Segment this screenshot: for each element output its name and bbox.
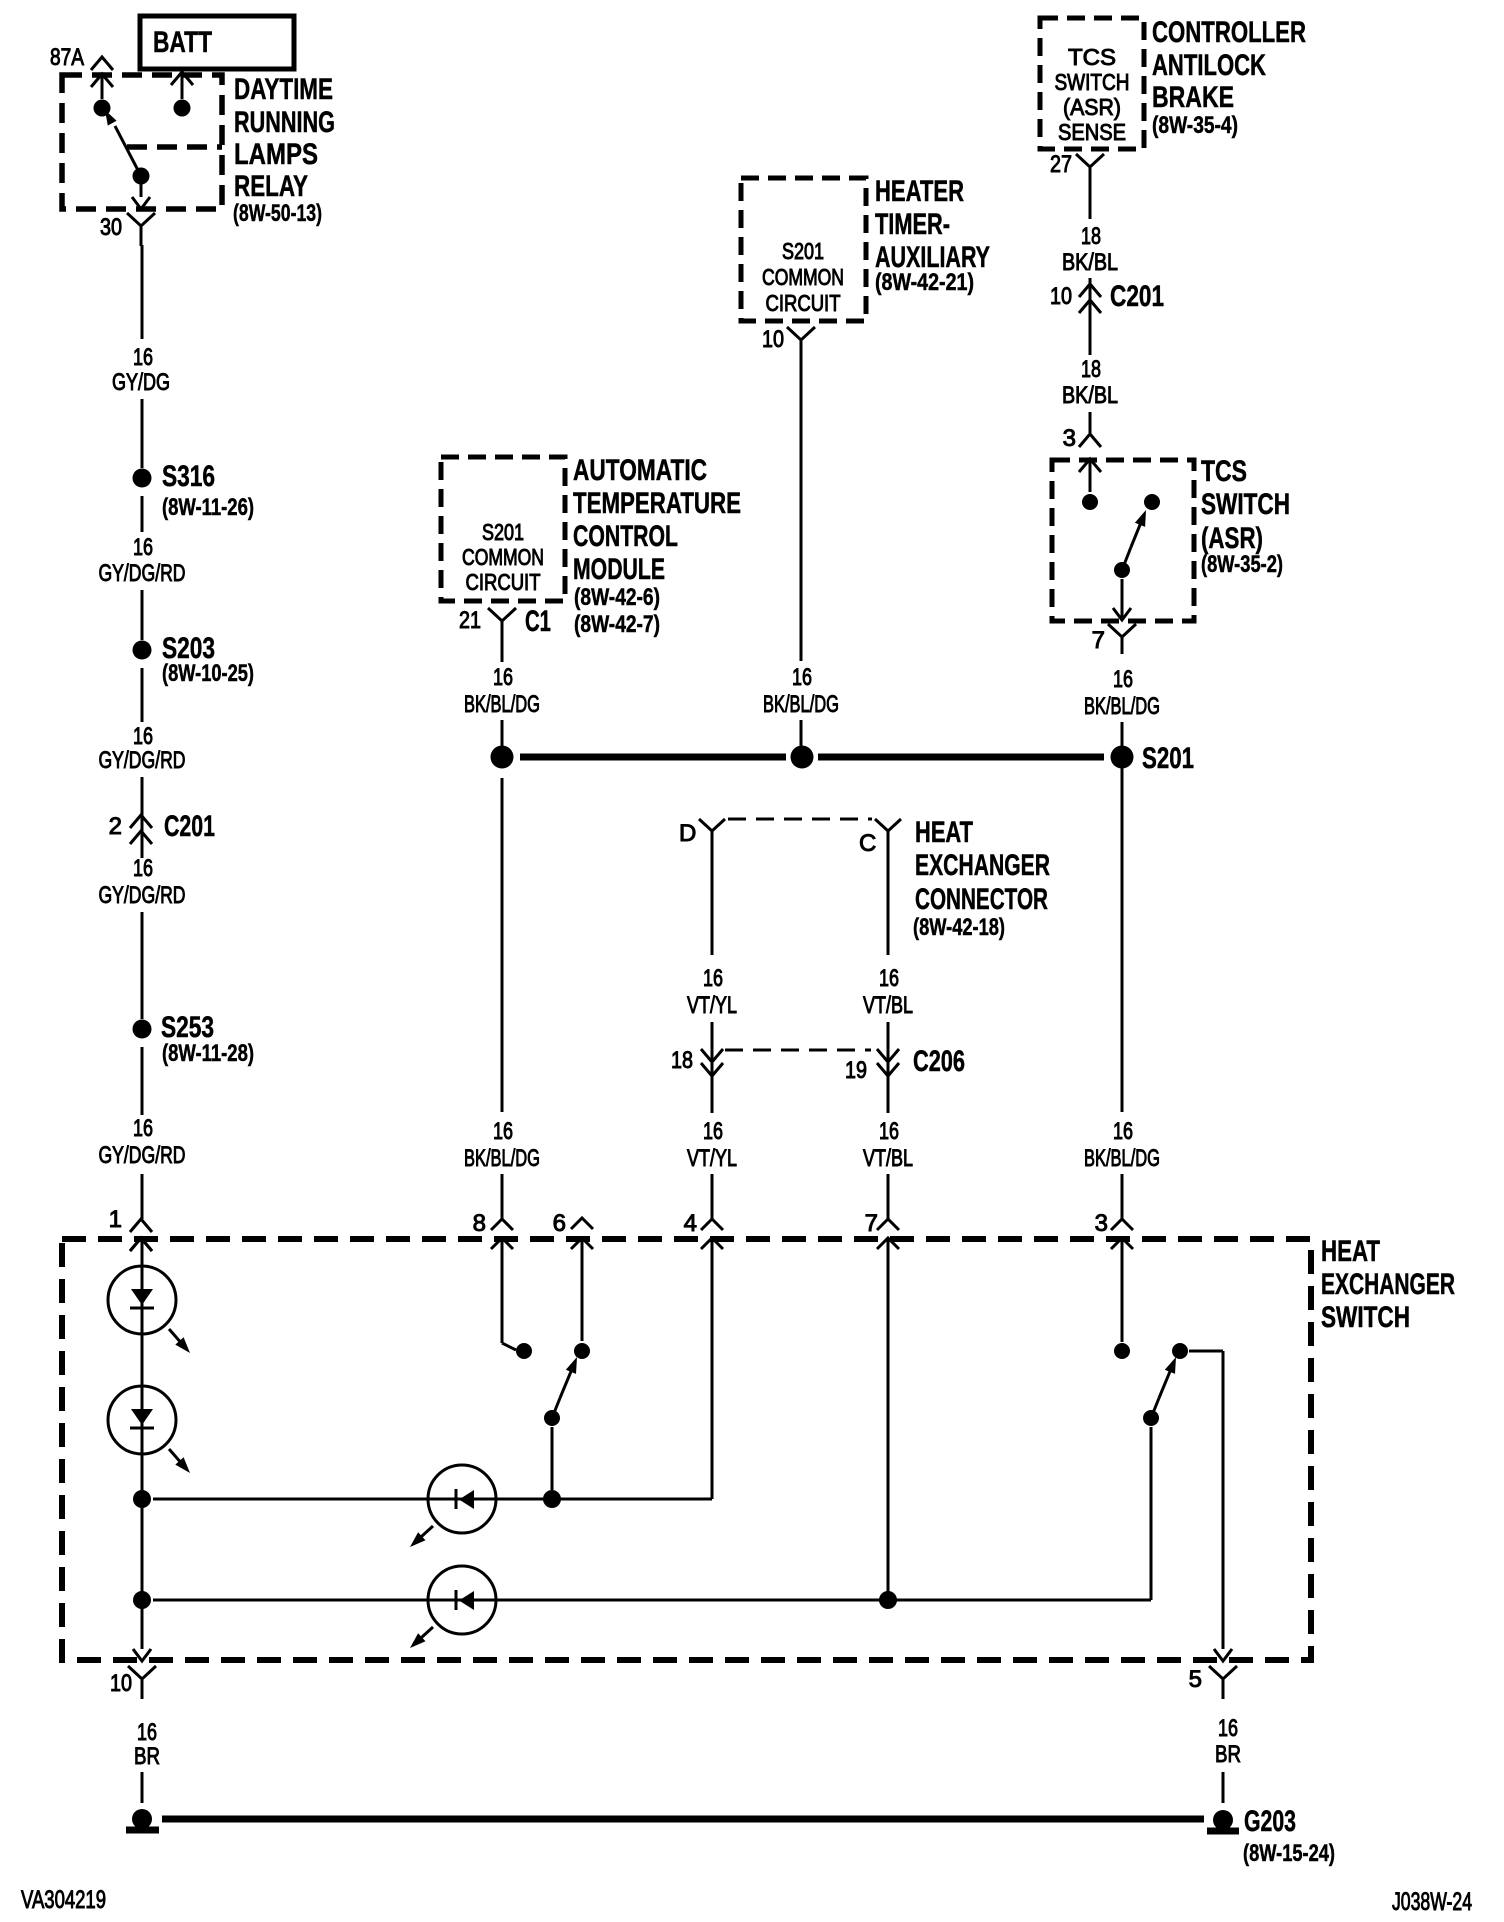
ground bus — [162, 1816, 1204, 1823]
svg-text:TEMPERATURE: TEMPERATURE — [573, 487, 741, 520]
wire 18 down — [711, 1080, 714, 1219]
svg-text:BR: BR — [134, 1743, 160, 1770]
svg-text:(8W-50-13): (8W-50-13) — [233, 200, 322, 227]
svg-text:7: 7 — [865, 1210, 878, 1237]
svg-text:SWITCH: SWITCH — [1201, 488, 1290, 521]
svg-text:16: 16 — [703, 965, 723, 992]
pin 8 chevrons — [473, 1210, 513, 1249]
pin 4 chevrons — [684, 1210, 723, 1249]
svg-text:VA304219: VA304219 — [21, 1886, 106, 1914]
svg-text:LAMPS: LAMPS — [234, 138, 318, 171]
svg-text:CONNECTOR: CONNECTOR — [915, 883, 1048, 916]
relay DAYTIME RUNNING LAMPS RELAY dashed box — [62, 75, 222, 209]
connector C206 pin 18 chevrons — [671, 1047, 723, 1076]
svg-text:CONTROLLER: CONTROLLER — [1152, 16, 1306, 49]
svg-text:BK/BL/DG: BK/BL/DG — [464, 1145, 540, 1172]
svg-text:ANTILOCK: ANTILOCK — [1152, 49, 1266, 82]
svg-text:8: 8 — [473, 1210, 486, 1237]
switch HEAT EXCHANGER SWITCH dashed box — [62, 1239, 1311, 1660]
svg-text:GY/DG/RD: GY/DG/RD — [99, 560, 186, 587]
svg-text:16: 16 — [493, 664, 513, 691]
svg-text:1: 1 — [109, 1206, 122, 1233]
sheet label VA304219 — [21, 1886, 106, 1914]
label 16 VT/BL a — [863, 965, 913, 1019]
pin 1 entry chevron — [130, 1238, 152, 1251]
wire to S253 — [141, 912, 144, 1019]
svg-text:C201: C201 — [1110, 280, 1164, 313]
svg-text:TCS: TCS — [1201, 455, 1247, 488]
pin 27 connector — [1050, 151, 1104, 181]
svg-text:TIMER-: TIMER- — [875, 208, 950, 241]
svg-text:S201: S201 — [782, 238, 824, 264]
svg-text:16: 16 — [879, 965, 899, 992]
svg-text:16: 16 — [792, 664, 812, 691]
svg-text:(8W-42-18): (8W-42-18) — [913, 914, 1005, 941]
wire below S253 — [141, 1047, 144, 1115]
svg-text:10: 10 — [110, 1670, 132, 1697]
module HEATER TIMER dashed box S201 COMMON CIRCUIT — [741, 178, 866, 321]
splice S203 — [133, 632, 255, 687]
svg-text:16: 16 — [133, 534, 153, 561]
svg-text:RELAY: RELAY — [234, 170, 308, 203]
wire D down — [711, 850, 714, 955]
label 16 VT/BL b — [863, 1118, 913, 1172]
svg-text:21: 21 — [459, 607, 481, 634]
svg-text:HEAT: HEAT — [1321, 1235, 1380, 1268]
svg-text:BK/BL/DG: BK/BL/DG — [1084, 1145, 1160, 1172]
svg-text:HEAT: HEAT — [915, 816, 973, 849]
pin 1 connector chevrons — [109, 1206, 152, 1251]
lamp LED1 indicator — [108, 1266, 190, 1353]
junction dot wire1 — [133, 1490, 151, 1508]
tcs pin 7 exit arrow — [1113, 608, 1131, 620]
svg-text:S201: S201 — [482, 519, 524, 545]
ground symbol left — [126, 1809, 159, 1830]
connector pin D — [679, 819, 725, 850]
svg-text:16: 16 — [1113, 1118, 1133, 1145]
junction dot row1 switch — [543, 1490, 561, 1508]
svg-text:BATT: BATT — [153, 26, 212, 59]
wire pin21 down — [501, 632, 504, 662]
svg-text:BK/BL/DG: BK/BL/DG — [464, 691, 540, 718]
wire pin27 down — [1089, 181, 1092, 219]
pin 5 connector — [1189, 1666, 1237, 1699]
pin 30 connector Y — [100, 213, 155, 246]
svg-text:CONTROL: CONTROL — [573, 520, 678, 553]
svg-text:SENSE: SENSE — [1058, 119, 1126, 145]
wire to C201 right — [1089, 278, 1092, 355]
wire S201 bus — [520, 754, 1104, 761]
wire to S201 bus — [501, 720, 504, 747]
relay K1 contact dot 87A — [94, 100, 111, 117]
wire tcs to bus — [1121, 722, 1124, 746]
svg-text:(8W-42-6): (8W-42-6) — [574, 584, 660, 611]
wire row2 horizontal — [153, 1599, 1151, 1602]
svg-text:VT/YL: VT/YL — [687, 1145, 737, 1172]
svg-text:(8W-11-28): (8W-11-28) — [162, 1040, 254, 1067]
relay K1 contact dot 2 — [174, 100, 191, 117]
wire C down — [887, 850, 890, 955]
svg-text:S316: S316 — [162, 460, 215, 493]
module title CONTROLLER ANTILOCK BRAKE — [1152, 16, 1306, 139]
svg-text:(8W-35-4): (8W-35-4) — [1152, 112, 1238, 139]
lamp LED3 indicator — [410, 1465, 496, 1547]
wire pin1 to led1 — [141, 1240, 144, 1262]
wire to TCS switch pin 3 — [1089, 412, 1092, 433]
svg-text:30: 30 — [100, 214, 122, 241]
wire switch6 riser — [551, 1427, 554, 1490]
switch lever right pivot dot — [1143, 1410, 1159, 1426]
svg-text:3: 3 — [1095, 1210, 1108, 1237]
svg-text:(8W-42-7): (8W-42-7) — [574, 611, 660, 638]
svg-text:16: 16 — [133, 1115, 153, 1142]
power node BATT — [140, 16, 294, 69]
wire to S316 — [141, 399, 144, 468]
wire to C201 — [141, 777, 144, 858]
svg-text:COMMON: COMMON — [762, 264, 844, 290]
svg-text:C1: C1 — [525, 605, 551, 638]
connector C201 pin 10 chevrons — [1050, 280, 1164, 313]
tcs lever pivot dot — [1114, 562, 1130, 578]
pin 3 hes chevrons — [1095, 1210, 1133, 1249]
svg-text:HEATER: HEATER — [875, 175, 964, 208]
svg-text:5: 5 — [1189, 1666, 1202, 1693]
wire pin6 internal — [581, 1240, 584, 1341]
svg-text:CIRCUIT: CIRCUIT — [466, 569, 541, 595]
wire row2 riser right — [1150, 1427, 1153, 1600]
label 16 VT/YL b — [687, 1118, 737, 1172]
svg-text:BK/BL: BK/BL — [1062, 249, 1118, 276]
relay common contact dot — [133, 168, 150, 185]
svg-text:(8W-10-25): (8W-10-25) — [162, 660, 254, 687]
svg-text:GY/DG/RD: GY/DG/RD — [99, 882, 186, 909]
wire pin3 internal — [1121, 1240, 1124, 1342]
pin 8 contact dot — [516, 1343, 532, 1359]
svg-text:GY/DG: GY/DG — [112, 369, 170, 396]
splice S253 — [133, 1011, 255, 1067]
svg-text:CIRCUIT: CIRCUIT — [766, 290, 841, 316]
pin 3 contact dot — [1114, 1343, 1130, 1359]
label 16 BR right — [1215, 1715, 1241, 1768]
tcs contact dot left — [1082, 494, 1098, 510]
svg-text:VT/YL: VT/YL — [687, 992, 737, 1019]
pin 3 tcs chevron — [1063, 425, 1101, 452]
label 16 BK/BL/DG heater — [763, 664, 839, 718]
pin 5 exit arrow — [1214, 1649, 1232, 1661]
label 16 GY/DG/RD c — [99, 855, 186, 909]
label 16 GY/DG — [112, 344, 170, 396]
svg-text:16: 16 — [137, 1719, 157, 1746]
svg-text:(ASR): (ASR) — [1063, 94, 1121, 120]
connector pin C — [859, 819, 901, 857]
pin 10 exit arrow — [133, 1649, 151, 1661]
junction dot row2 left — [133, 1591, 151, 1609]
svg-text:19: 19 — [845, 1057, 867, 1084]
connector title HEAT EXCHANGER CONNECTOR — [913, 816, 1050, 941]
svg-text:BK/BL/DG: BK/BL/DG — [1084, 693, 1160, 720]
pin 10 connector heater — [762, 326, 815, 353]
connector C206 dashed link — [725, 1049, 871, 1052]
relay title DAYTIME RUNNING LAMPS RELAY — [233, 73, 335, 227]
switch lever pin6 pivot dot — [544, 1410, 560, 1426]
pin 7 hes chevrons — [865, 1210, 899, 1249]
label 16 BK/BL/DG tcs — [1084, 666, 1160, 720]
svg-text:2: 2 — [109, 813, 122, 840]
wire below S203 — [141, 668, 144, 722]
lamp LED2 indicator — [108, 1386, 190, 1473]
svg-text:RUNNING: RUNNING — [234, 106, 335, 139]
wire below S316 — [141, 496, 144, 532]
wire pin10 to ground — [141, 1772, 144, 1803]
wire bus to pin 3 hes — [1121, 768, 1124, 1219]
wire heater pin10 down — [800, 352, 803, 661]
svg-text:GY/DG/RD: GY/DG/RD — [99, 747, 186, 774]
wire pin4 riser — [711, 1240, 714, 1499]
tcs switch lever — [1122, 510, 1146, 570]
label 16 GY/DG/RD d — [99, 1115, 186, 1169]
svg-text:TCS: TCS — [1068, 44, 1116, 70]
module title HEATER TIMER-AUXILIARY — [875, 175, 990, 296]
svg-text:MODULE: MODULE — [573, 553, 665, 586]
svg-text:BRAKE: BRAKE — [1152, 81, 1234, 114]
wire relay pin 2 to contact — [181, 74, 184, 99]
label 16 VT/YL a — [687, 965, 737, 1019]
wire tcs lever to pin 7 — [1121, 579, 1124, 619]
svg-text:(8W-11-26): (8W-11-26) — [162, 494, 254, 521]
svg-text:87A: 87A — [50, 44, 84, 71]
svg-text:(8W-42-21): (8W-42-21) — [875, 269, 974, 296]
svg-text:4: 4 — [684, 1210, 697, 1237]
sheet label J038W-24 — [1392, 1888, 1472, 1916]
pin 10 connector — [110, 1666, 156, 1699]
svg-text:3: 3 — [1063, 425, 1076, 452]
label 16 GY/DG/RD a — [99, 534, 186, 587]
pin 7 connector tcs — [1092, 624, 1136, 654]
ground G203 — [1207, 1805, 1335, 1867]
svg-text:16: 16 — [133, 855, 153, 882]
svg-text:BR: BR — [1215, 1741, 1241, 1768]
wire relay pin 87A to contact — [101, 74, 104, 99]
wire to pin 1 — [141, 1174, 144, 1219]
wire heater to bus — [800, 720, 803, 747]
label 87A — [50, 44, 84, 71]
heat exchanger connector dashed link — [728, 818, 872, 821]
svg-text:16: 16 — [133, 344, 153, 371]
svg-text:16: 16 — [1218, 1715, 1238, 1742]
pin 6 contact dot — [574, 1343, 590, 1359]
svg-text:D: D — [679, 820, 696, 847]
wire contact to pin5 corner — [1189, 1351, 1223, 1649]
splice S316 — [133, 460, 255, 521]
svg-text:C: C — [859, 830, 876, 857]
switch lever to pin 6 — [552, 1357, 577, 1418]
lamp LED4 indicator — [410, 1566, 496, 1648]
label 16 BR left — [134, 1719, 160, 1770]
svg-text:(8W-35-2): (8W-35-2) — [1201, 551, 1283, 578]
label 18 BK/BL a — [1062, 223, 1118, 276]
svg-text:DAYTIME: DAYTIME — [234, 73, 333, 106]
label 18 BK/BL b — [1062, 356, 1118, 409]
wire pin7 internal — [887, 1240, 890, 1600]
wire C to C206 — [887, 1022, 890, 1080]
svg-text:G203: G203 — [1244, 1805, 1296, 1838]
wire pin1 branch vertical — [141, 1240, 144, 1649]
wire 19 down — [887, 1080, 890, 1219]
module ATC S201 COMMON CIRCUIT dashed box — [441, 457, 565, 601]
svg-text:16: 16 — [133, 723, 153, 750]
svg-text:VT/BL: VT/BL — [863, 992, 913, 1019]
svg-text:AUTOMATIC: AUTOMATIC — [573, 454, 707, 487]
svg-text:C201: C201 — [164, 810, 215, 843]
label 16 BK/BL/DG atc — [464, 664, 540, 718]
right switch contact dot — [1172, 1343, 1188, 1359]
tcs pin3 internal entry arrow — [1079, 459, 1101, 492]
svg-text:7: 7 — [1092, 627, 1105, 654]
switch lever right — [1151, 1357, 1176, 1418]
switch TCS SWITCH (ASR) dashed box — [1052, 460, 1194, 621]
relay pin 30 exit arrow — [132, 197, 150, 209]
svg-text:J038W-24: J038W-24 — [1392, 1888, 1472, 1916]
svg-text:EXCHANGER: EXCHANGER — [1321, 1268, 1455, 1301]
wire S201 to pin 8 — [501, 778, 504, 1219]
label 16 GY/DG/RD b — [99, 723, 186, 774]
relay pin 87A connector chevrons — [91, 57, 113, 87]
module CAB dashed box TCS SWITCH (ASR) SENSE — [1040, 18, 1144, 149]
module title AUTOMATIC TEMPERATURE CONTROL MODULE — [573, 454, 741, 638]
wire D to C206 — [711, 1022, 714, 1080]
svg-text:BK/BL: BK/BL — [1062, 382, 1118, 409]
tcs contact dot right — [1144, 494, 1160, 510]
splice S201 junction dot tcs — [1111, 742, 1195, 775]
svg-text:SWITCH: SWITCH — [1055, 69, 1130, 95]
svg-text:C206: C206 — [913, 1045, 965, 1078]
wire relay common to pin 30 — [140, 176, 143, 197]
label 16 BK/BL/DG col1 — [464, 1118, 540, 1172]
svg-text:6: 6 — [553, 1210, 566, 1237]
svg-text:EXCHANGER: EXCHANGER — [915, 849, 1050, 882]
junction dot row2 pin7 — [879, 1591, 897, 1609]
relay armature lever with arrowhead — [105, 110, 141, 176]
svg-text:SWITCH: SWITCH — [1321, 1301, 1410, 1334]
wire pin8 internal — [502, 1240, 516, 1350]
connector C206 pin 19 chevrons — [845, 1045, 965, 1084]
svg-text:18: 18 — [1081, 223, 1101, 250]
svg-text:GY/DG/RD: GY/DG/RD — [99, 1142, 186, 1169]
pin 21 connector C1 — [459, 605, 551, 638]
switch title TCS SWITCH (ASR) — [1201, 455, 1290, 578]
relay pin 2 chevron — [171, 72, 193, 85]
svg-text:10: 10 — [1050, 283, 1072, 310]
switch title HEAT EXCHANGER SWITCH — [1321, 1235, 1455, 1334]
splice S201 junction dot atc — [491, 746, 514, 769]
svg-text:BK/BL/DG: BK/BL/DG — [763, 691, 839, 718]
svg-text:(8W-15-24): (8W-15-24) — [1243, 1840, 1335, 1867]
label 16 BK/BL/DG col4 — [1084, 1118, 1160, 1172]
connector C201 pin 2 chevrons — [109, 810, 215, 844]
pin 6 chevrons — [553, 1210, 593, 1249]
splice S201 junction dot heater — [791, 746, 814, 769]
svg-text:COMMON: COMMON — [462, 544, 544, 570]
wire to S203 — [141, 590, 144, 640]
svg-text:16: 16 — [1113, 666, 1133, 693]
wire row1 horizontal — [153, 1498, 712, 1501]
svg-text:S201: S201 — [1142, 742, 1194, 775]
relay internal dashed divider — [127, 144, 222, 150]
svg-text:16: 16 — [879, 1118, 899, 1145]
wire pin5 to ground — [1222, 1772, 1225, 1803]
svg-text:10: 10 — [762, 326, 784, 353]
svg-text:18: 18 — [1081, 356, 1101, 383]
svg-text:27: 27 — [1050, 151, 1072, 178]
svg-text:18: 18 — [671, 1047, 693, 1074]
wire pin30 down — [141, 245, 144, 339]
svg-text:16: 16 — [703, 1118, 723, 1145]
svg-text:VT/BL: VT/BL — [863, 1145, 913, 1172]
svg-text:16: 16 — [493, 1118, 513, 1145]
